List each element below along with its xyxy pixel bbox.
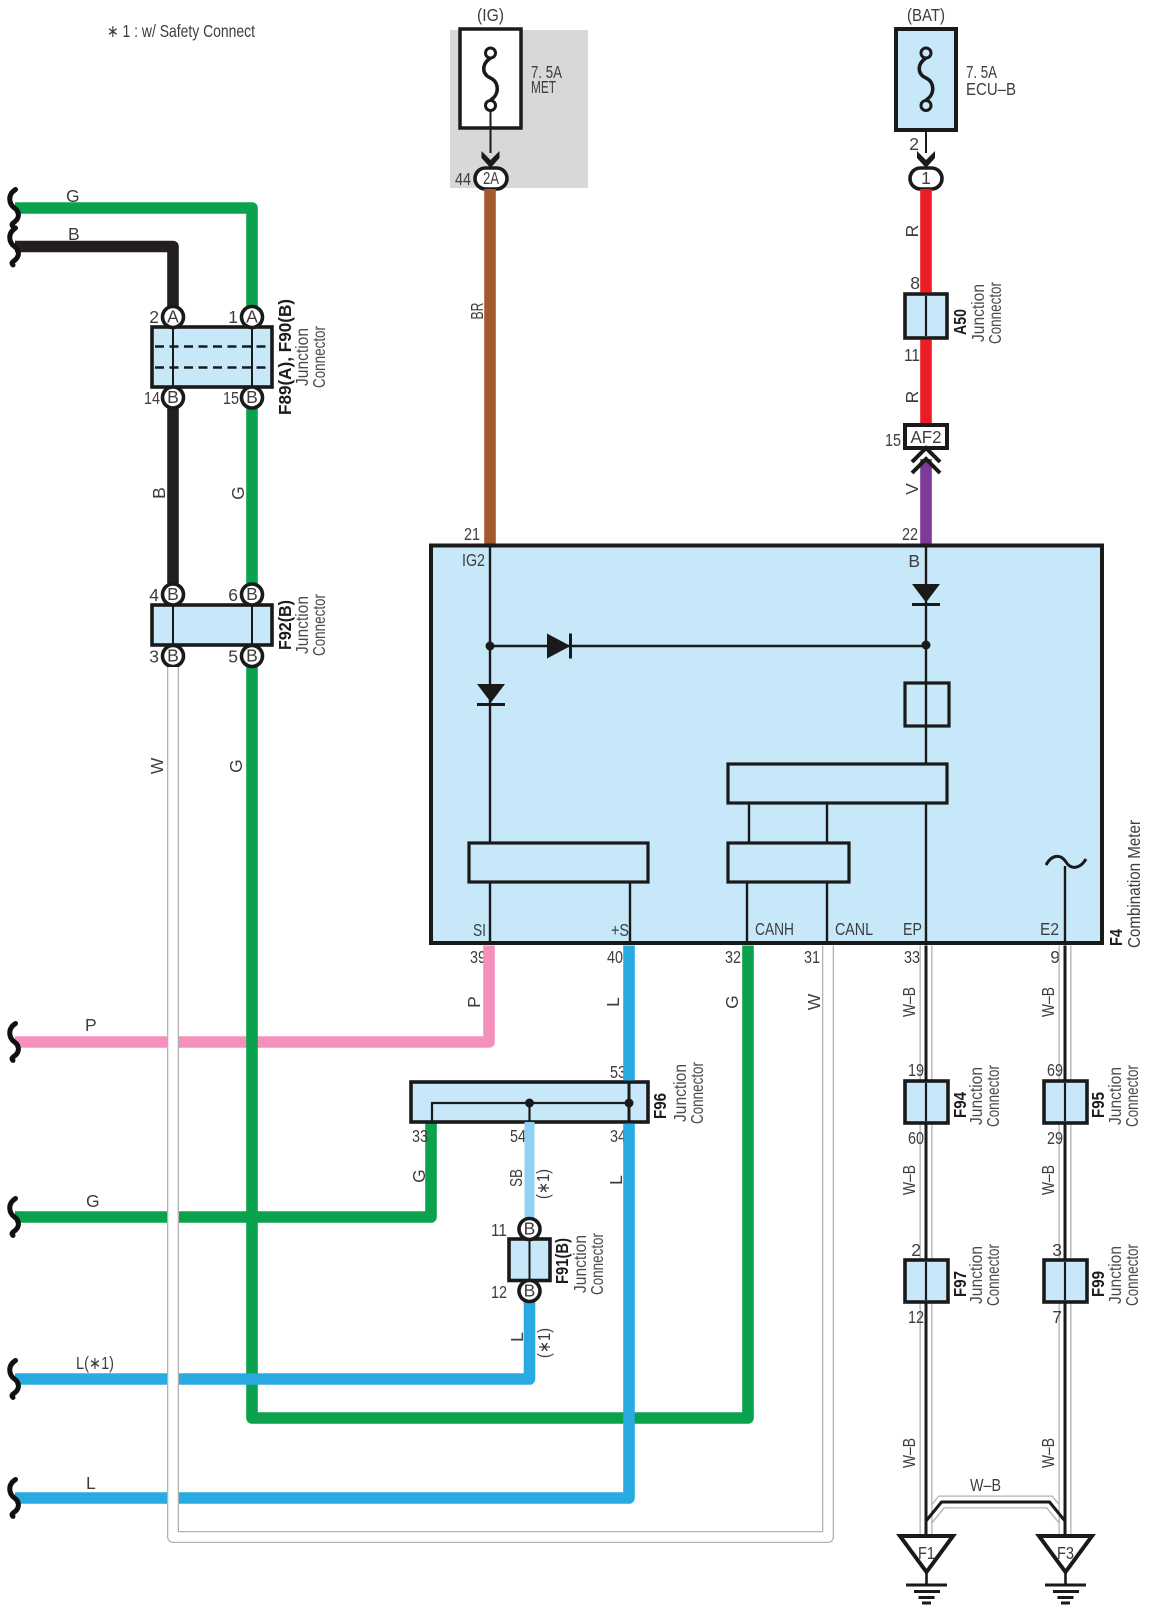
svg-text:W: W	[804, 993, 824, 1010]
svg-text:AF2: AF2	[911, 427, 942, 447]
pin circle 15 B	[242, 387, 263, 408]
svg-text:22: 22	[902, 524, 918, 544]
internal lead E2	[1064, 866, 1066, 941]
svg-text:∗ 1 : w/ Safety Connect: ∗ 1 : w/ Safety Connect	[107, 21, 255, 41]
svg-text:4: 4	[149, 585, 159, 605]
internal block rectangle CAN	[728, 843, 849, 882]
svg-text:R: R	[902, 225, 922, 238]
connector oval 2A pin 44	[475, 168, 507, 189]
offpage connector squiggle P	[10, 1024, 19, 1061]
svg-text:60: 60	[908, 1128, 924, 1148]
svg-text:(∗1): (∗1)	[534, 1328, 554, 1358]
internal block rectangle upper	[728, 764, 947, 803]
svg-text:CANL: CANL	[835, 919, 873, 939]
wire W-B crossover jog band	[926, 1502, 1065, 1521]
svg-text:44: 44	[455, 169, 471, 189]
svg-text:B: B	[908, 551, 920, 571]
svg-text:SI: SI	[473, 920, 486, 940]
junction connector F91(B)	[509, 1239, 550, 1281]
svg-text:54: 54	[510, 1126, 526, 1146]
svg-text:W–B: W–B	[1038, 1438, 1058, 1468]
svg-text:L: L	[606, 1175, 626, 1185]
svg-text:G: G	[86, 1191, 100, 1211]
offpage connector squiggle B	[10, 228, 19, 265]
svg-text:Connector: Connector	[1122, 1244, 1142, 1306]
arrow down	[482, 151, 500, 168]
svg-text:(∗1): (∗1)	[533, 1169, 553, 1199]
wire G green F89 to F92	[246, 409, 258, 585]
IG fuse gray panel	[450, 30, 588, 188]
svg-text:F91(B): F91(B)	[552, 1238, 572, 1284]
junction connector F96	[411, 1082, 648, 1122]
offpage connector squiggle G	[10, 190, 19, 227]
svg-text:29: 29	[1047, 1128, 1063, 1148]
svg-text:15: 15	[885, 430, 901, 450]
junction connector F99	[1044, 1260, 1087, 1302]
svg-text:W–B: W–B	[1038, 1165, 1058, 1195]
svg-text:R: R	[902, 391, 922, 404]
offpage connector squiggle L(*1)	[10, 1361, 19, 1398]
svg-text:L: L	[507, 1332, 527, 1342]
svg-text:12: 12	[491, 1282, 507, 1302]
svg-text:19: 19	[908, 1060, 924, 1080]
svg-text:33: 33	[412, 1126, 428, 1146]
svg-text:F96: F96	[650, 1093, 670, 1119]
svg-text:32: 32	[725, 947, 741, 967]
node junction on B line	[922, 641, 931, 650]
svg-text:2A: 2A	[483, 168, 499, 188]
svg-text:B: B	[524, 1281, 536, 1301]
svg-text:B: B	[68, 224, 80, 244]
svg-text:Connector: Connector	[309, 326, 329, 388]
pin circle 1 A	[242, 307, 263, 328]
svg-text:G: G	[228, 486, 248, 500]
arrow down	[917, 151, 935, 168]
offpage connector squiggle G lower	[10, 1199, 19, 1236]
svg-text:A: A	[167, 307, 179, 327]
junction connector F94	[905, 1081, 948, 1123]
svg-text:8: 8	[910, 273, 920, 293]
svg-text:B: B	[246, 584, 258, 604]
wire W-B crossover jog stripe	[926, 1502, 1065, 1521]
wire P pink	[15, 946, 489, 1043]
svg-text:Combination Meter: Combination Meter	[1124, 820, 1144, 948]
pin circle 6 B	[242, 584, 263, 605]
F96 internal busbar	[432, 1083, 634, 1121]
svg-text:B: B	[167, 646, 179, 666]
svg-text:W–B: W–B	[1038, 987, 1058, 1017]
diode down on B branch	[912, 584, 940, 603]
svg-text:5: 5	[228, 647, 238, 667]
pin circle 2 A	[163, 307, 184, 328]
svg-text:12: 12	[908, 1307, 924, 1327]
svg-text:G: G	[722, 995, 742, 1009]
svg-text:ECU–B: ECU–B	[966, 79, 1016, 99]
svg-text:B: B	[167, 387, 179, 407]
svg-text:B: B	[246, 387, 258, 407]
svg-text:11: 11	[904, 345, 920, 365]
offpage connector squiggle L	[10, 1480, 19, 1517]
svg-text:CANH: CANH	[755, 919, 794, 939]
wire BR brown	[484, 189, 496, 544]
wire R red fuse to A50	[920, 189, 932, 293]
svg-text:2: 2	[911, 1240, 921, 1260]
svg-text:IG2: IG2	[462, 550, 485, 570]
node junction on IG2 line	[486, 642, 495, 651]
diode down on IG2 branch	[477, 684, 505, 703]
svg-text:A: A	[246, 307, 258, 327]
svg-text:Connector: Connector	[983, 1244, 1003, 1306]
double chevron up	[912, 448, 940, 462]
svg-text:40: 40	[607, 947, 623, 967]
svg-text:SB: SB	[506, 1169, 526, 1187]
svg-text:W–B: W–B	[899, 987, 919, 1017]
wire G green to F96 pin 33	[15, 1122, 431, 1217]
internal leads CANH CANL	[746, 882, 748, 941]
svg-text:(BAT): (BAT)	[907, 5, 945, 25]
svg-text:P: P	[464, 996, 484, 1008]
ground F1	[900, 1536, 953, 1603]
connector AF2	[905, 425, 947, 448]
junction connector F97	[905, 1260, 948, 1302]
svg-text:L: L	[603, 997, 623, 1007]
svg-text:MET: MET	[531, 77, 556, 97]
wire R red A50 to AF2	[920, 340, 932, 427]
svg-text:14: 14	[144, 388, 160, 408]
diode right-pointing	[547, 634, 571, 659]
pin circle 12 B	[519, 1281, 540, 1302]
junction connector F89/F90	[152, 327, 272, 387]
svg-text:B: B	[246, 646, 258, 666]
wire L blue from +S to F96 pin 53	[623, 946, 635, 1081]
meter internal wire IG2	[489, 547, 491, 843]
wire V violet	[920, 459, 932, 544]
wire W white F92 pin3 to CANL	[173, 667, 828, 1537]
junction connector F95	[1044, 1081, 1087, 1123]
svg-text:G: G	[409, 1169, 429, 1183]
svg-text:W–B: W–B	[970, 1475, 1001, 1495]
svg-text:BR: BR	[467, 303, 487, 320]
svg-text:EP: EP	[903, 919, 922, 939]
internal lead EP	[925, 803, 927, 941]
svg-text:+S: +S	[611, 920, 629, 940]
pin circle 4 B	[163, 584, 184, 605]
wire B black top-left	[15, 247, 173, 307]
meter internal wire to B line	[490, 645, 926, 647]
internal leads SI +S	[489, 882, 491, 941]
wire L(*1) blue to F91 pin12	[15, 1302, 530, 1380]
svg-text:B: B	[149, 487, 169, 499]
svg-text:B: B	[167, 584, 179, 604]
svg-text:L(∗1): L(∗1)	[76, 1353, 114, 1373]
svg-text:2: 2	[149, 307, 159, 327]
wire SB light blue F96 to F91	[525, 1122, 535, 1218]
svg-text:F1: F1	[918, 1543, 935, 1563]
meter internal wire B	[925, 547, 927, 764]
lead from fuse to connector 2A	[490, 110, 492, 153]
svg-text:(IG): (IG)	[477, 5, 504, 25]
svg-text:33: 33	[904, 947, 920, 967]
svg-text:Connector: Connector	[1122, 1065, 1142, 1127]
wire W-B E2 vertical	[1059, 946, 1072, 1537]
svg-text:7: 7	[1052, 1307, 1062, 1327]
BAT fuse ECU-B box	[896, 29, 956, 130]
svg-text:Connector: Connector	[587, 1233, 607, 1295]
svg-text:P: P	[85, 1015, 97, 1035]
combination meter box F4	[431, 546, 1102, 944]
svg-text:69: 69	[1047, 1060, 1063, 1080]
pin circle 11 B	[519, 1219, 540, 1240]
pin circle 14 B	[163, 387, 184, 408]
svg-text:21: 21	[464, 524, 480, 544]
wire G green top-left	[15, 208, 252, 307]
internal leads from upper block	[748, 803, 750, 843]
svg-text:G: G	[226, 759, 246, 773]
wire L blue from F96 pin 34 to bottom horizontal	[15, 1124, 629, 1499]
svg-text:3: 3	[149, 647, 159, 667]
svg-text:V: V	[902, 483, 922, 495]
svg-text:1: 1	[228, 307, 238, 327]
fuse MET box	[460, 29, 521, 128]
internal block rectangle SI	[469, 843, 648, 882]
junction connector F92(B)	[152, 605, 272, 645]
ground F3	[1039, 1536, 1092, 1603]
svg-text:2: 2	[909, 134, 919, 154]
connector oval 1	[910, 168, 942, 189]
svg-text:W: W	[147, 757, 167, 774]
wire W-B EP vertical	[920, 946, 933, 1537]
wire G green F92 to CANH	[252, 667, 748, 1418]
svg-text:31: 31	[804, 947, 820, 967]
internal component square	[905, 683, 949, 726]
svg-text:E2: E2	[1040, 919, 1059, 939]
svg-text:Connector: Connector	[985, 282, 1005, 344]
pin circle 3 B	[163, 646, 184, 667]
svg-text:L: L	[86, 1473, 96, 1493]
pin circle 5 B	[242, 646, 263, 667]
svg-text:W–B: W–B	[899, 1165, 919, 1195]
svg-text:B: B	[524, 1219, 536, 1239]
junction connector A50	[905, 294, 947, 338]
svg-text:F4: F4	[1106, 929, 1126, 946]
svg-text:3: 3	[1052, 1240, 1062, 1260]
lead from fuse pin 2	[925, 130, 927, 153]
svg-text:W–B: W–B	[899, 1438, 919, 1468]
svg-text:1: 1	[921, 168, 931, 188]
svg-text:Connector: Connector	[309, 594, 329, 656]
internal coil squiggle E2	[1046, 856, 1086, 867]
svg-text:G: G	[66, 186, 80, 206]
wire B black F89 to F92	[167, 409, 179, 585]
svg-text:A50: A50	[950, 309, 970, 335]
svg-text:F3: F3	[1057, 1543, 1074, 1563]
svg-text:15: 15	[223, 388, 239, 408]
svg-text:11: 11	[491, 1220, 507, 1240]
svg-text:Connector: Connector	[687, 1062, 707, 1124]
svg-text:Connector: Connector	[983, 1065, 1003, 1127]
svg-text:6: 6	[228, 585, 238, 605]
